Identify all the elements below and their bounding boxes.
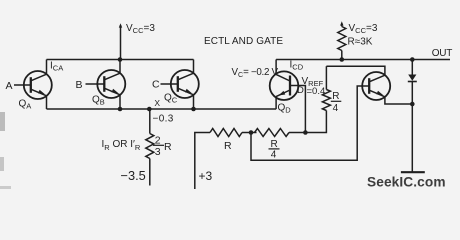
transistor QD xyxy=(270,71,299,100)
wire Qout collector xyxy=(326,66,385,75)
scan artifact xyxy=(0,112,5,131)
svg-text:R: R xyxy=(271,139,278,150)
wire Qout base path xyxy=(251,86,370,160)
transistor QB xyxy=(97,70,125,98)
resistor R=3K xyxy=(338,27,346,51)
svg-text:3: 3 xyxy=(155,146,161,158)
wire QC collector xyxy=(193,60,195,74)
wire diode anode lead xyxy=(411,60,413,75)
junction node X xyxy=(147,107,152,112)
svg-text:QB: QB xyxy=(92,95,105,107)
power VCC left arrow xyxy=(119,23,122,27)
junction emitter/diode line xyxy=(410,102,415,107)
ground xyxy=(401,171,425,173)
svg-text:A: A xyxy=(6,80,13,92)
svg-text:VCC=3: VCC=3 xyxy=(126,23,155,35)
svg-text:SeekIC.com: SeekIC.com xyxy=(367,175,446,190)
wire QD emitter xyxy=(275,97,277,109)
svg-text:ICD: ICD xyxy=(290,60,304,72)
wire QC emitter xyxy=(193,95,195,109)
wire +3 supply xyxy=(195,133,210,190)
node A input wire xyxy=(14,84,31,86)
wire QB collector xyxy=(119,60,121,74)
wire QB emitter xyxy=(119,95,121,109)
power VCC right arrow xyxy=(340,21,343,25)
svg-text:VC= −0.2 V: VC= −0.2 V xyxy=(232,67,279,79)
resistor R xyxy=(210,129,242,137)
svg-text:C: C xyxy=(152,79,160,91)
svg-text:R: R xyxy=(332,91,339,102)
junction top rail/VCC/QB collector xyxy=(118,57,123,62)
junction QC emitter xyxy=(191,107,196,112)
scan artifact xyxy=(0,157,4,171)
wire QD collector xyxy=(275,60,277,75)
svg-text:B: B xyxy=(76,79,83,91)
wire R to J1 xyxy=(242,132,257,134)
wire R3K to OUT xyxy=(341,51,343,60)
svg-text:OUT: OUT xyxy=(432,48,452,59)
svg-text:IR OR I′R: IR OR I′R xyxy=(102,139,141,152)
svg-text:4: 4 xyxy=(271,149,277,160)
wire top collector rail xyxy=(47,59,194,61)
wire QA emitter xyxy=(46,96,48,109)
junction J2 VREF node xyxy=(303,130,308,135)
junction J1 divider xyxy=(249,130,254,135)
wire R/4 vert top lead xyxy=(325,66,327,89)
svg-text:ECTL AND GATE: ECTL AND GATE xyxy=(204,36,283,47)
wire VCC supply left xyxy=(120,25,122,60)
wire node X down xyxy=(149,109,151,134)
svg-text:4: 4 xyxy=(333,103,339,114)
scan artifact xyxy=(0,186,11,189)
resistor R/4 vertical xyxy=(322,90,330,111)
svg-text:R: R xyxy=(164,141,172,153)
node C input wire xyxy=(161,83,179,85)
svg-text:VCC=3: VCC=3 xyxy=(349,23,378,35)
svg-text:ICA: ICA xyxy=(50,61,63,73)
wire diode cathode down xyxy=(411,82,413,172)
svg-text:+3: +3 xyxy=(199,169,213,183)
resistor R/4 horizontal xyxy=(255,129,290,137)
wire OUT line xyxy=(276,59,450,61)
wire R/4 to J2 xyxy=(289,132,305,134)
node B input wire xyxy=(86,83,105,85)
wire R/4 vert bottom lead xyxy=(305,111,326,133)
diode D xyxy=(408,75,416,81)
wire QD base to VREF node xyxy=(290,86,305,133)
transistor Q output xyxy=(362,72,390,100)
transistor QA xyxy=(24,71,52,99)
svg-text:QA: QA xyxy=(19,99,32,111)
wire Qout emitter xyxy=(385,97,412,104)
junction diode/OUT xyxy=(410,57,415,62)
wire VCC right lead xyxy=(341,23,343,27)
svg-text:X: X xyxy=(154,98,160,108)
wire emitter rail node X xyxy=(47,108,277,110)
wire to -3.5 xyxy=(149,159,151,186)
junction QB emitter xyxy=(118,107,123,112)
resistor 2/3R xyxy=(146,134,154,159)
transistor QC xyxy=(171,70,199,98)
svg-text:−0.3: −0.3 xyxy=(153,113,174,124)
svg-text:D: D xyxy=(297,85,304,96)
svg-text:R≈3K: R≈3K xyxy=(348,37,373,48)
junction R3K/OUT xyxy=(340,57,345,62)
wire QA collector xyxy=(46,60,48,75)
svg-text:R: R xyxy=(224,140,232,152)
svg-text:QD: QD xyxy=(278,103,292,115)
svg-text:−3.5: −3.5 xyxy=(121,168,146,183)
